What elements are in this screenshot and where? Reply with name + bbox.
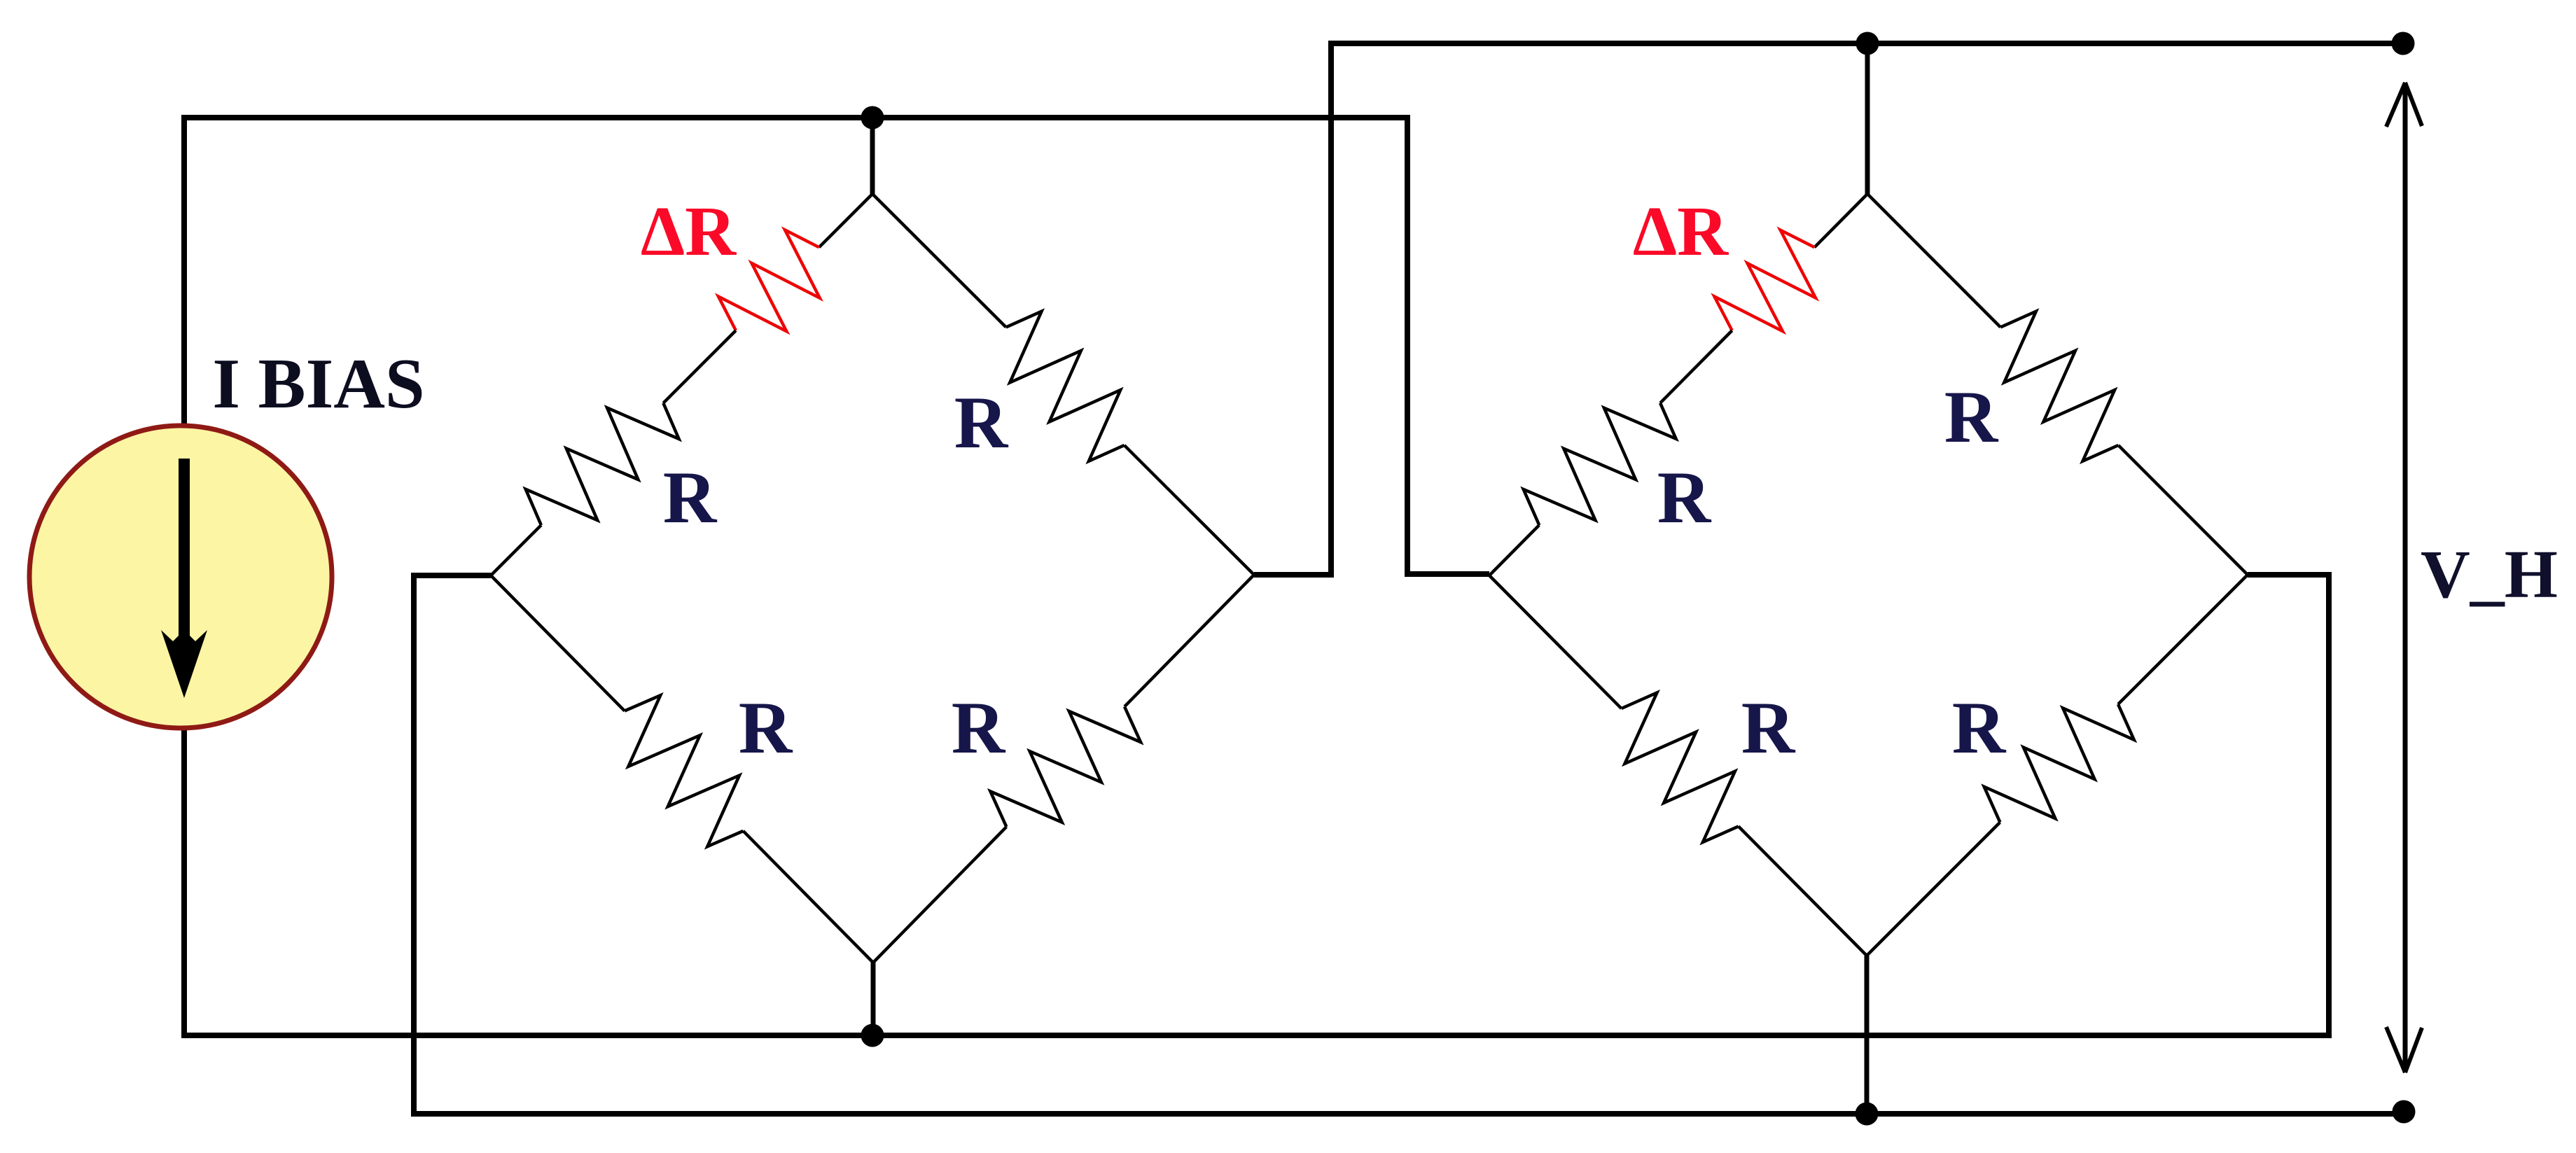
wire bridge1 bottom-right arm lead a (873, 827, 1006, 963)
svg-text:R: R (1944, 376, 1999, 458)
wire bridge2 bottom-left arm lead a (1489, 575, 1622, 708)
svg-text:R: R (1741, 687, 1796, 769)
wire bridge2 bottom-right arm lead a (1867, 823, 2000, 956)
wire bridge2 top-left arm lead a (1814, 194, 1867, 247)
wire stub from bridge1 left vertex (411, 573, 491, 578)
svg-text:R: R (1657, 456, 1712, 538)
node D junction bridge2 bottom (1856, 1103, 1879, 1126)
resistor R (bridge1 bottom-right arm) (990, 706, 1141, 827)
wire bridge2 top-right arm lead b (2118, 445, 2248, 575)
wire bridge1 bottom-right arm lead b (1125, 575, 1254, 706)
wire bridge1 top-left arm lead b (491, 525, 541, 575)
svg-text:R: R (952, 687, 1006, 769)
wire bridge2 top stub (1865, 43, 1870, 194)
wire bridge2 top-left arm lead b (1489, 525, 1539, 575)
wire bridge1 top-right arm lead a (872, 194, 1006, 327)
wire bridge1 bottom stub (871, 963, 876, 1035)
wire bottom rail 1 (node C) (181, 1033, 2332, 1038)
wire bridge2 top-right arm lead a (1867, 194, 2000, 327)
V_H measurement arrow line (2403, 85, 2408, 1072)
current source I BIAS circle (29, 426, 332, 728)
wire stub from bridge1 right vertex (1254, 572, 1334, 578)
node C junction bridge1 bottom (861, 1024, 884, 1047)
node D junction V_H bottom (2393, 1100, 2416, 1124)
svg-text:R: R (663, 456, 718, 538)
wire current-source top lead (181, 115, 187, 426)
V_H arrow head bottom (2386, 1027, 2422, 1072)
resistor dR (bridge2 top-left arm) (1715, 230, 1816, 332)
wire bridge2 bottom-right arm lead b (2118, 575, 2248, 704)
node A junction bridge1 top (861, 106, 884, 130)
resistor R (bridge2 bottom-right arm) (1984, 704, 2134, 823)
resistor R (bridge2 top-right arm) (2000, 312, 2118, 461)
svg-text:R: R (1952, 687, 2007, 769)
resistor R (bridge1 bottom-left arm) (625, 695, 743, 846)
resistor R (bridge2 bottom-left arm) (1622, 692, 1739, 842)
V_H arrow head top (2386, 83, 2422, 127)
wire bridge1 bottom-left arm lead a (491, 575, 625, 711)
svg-text:V_H: V_H (2421, 537, 2558, 613)
current source arrow (179, 459, 190, 644)
wire bridge2 bottom-left arm lead b (1739, 826, 1867, 956)
node B junction V_H top (2392, 32, 2415, 55)
wire up from bottom rail 1 (2326, 572, 2332, 1035)
resistor R (bridge1 top-left arm) (526, 403, 679, 525)
wire bridge2 bottom stub (1865, 956, 1870, 1114)
wire stub to bridge2 right vertex (2248, 572, 2332, 578)
wire bottom rail 2 (node D) (411, 1111, 2404, 1117)
wire down from top-rail-left to bridge2 left (1405, 118, 1410, 577)
resistor R (bridge2 top-left arm) (1524, 403, 1676, 525)
wire top rail right (node B) (1328, 41, 2403, 46)
wire bridge2 top-left arm middle (1660, 330, 1732, 403)
wire current-source bottom lead (181, 728, 187, 1038)
wire down from bridge1 left (411, 573, 417, 1117)
wire bridge1 top-left arm middle (663, 330, 736, 403)
wire bridge1 top-right arm lead b (1125, 445, 1254, 575)
resistor R (bridge1 top-right arm) (1006, 312, 1125, 461)
node B junction bridge2 top (1856, 32, 1879, 55)
svg-text:R: R (954, 382, 1009, 463)
wire bridge1 top-left arm lead a (819, 194, 872, 247)
wire bridge1 bottom-left arm lead b (743, 831, 873, 963)
wire stub to bridge2 left vertex (1407, 571, 1489, 577)
resistor dR (bridge1 top-left arm) (718, 230, 820, 331)
wire up to top rail right (1328, 43, 1334, 578)
svg-text:ΔR: ΔR (641, 192, 737, 270)
wire bridge1 top stub (870, 118, 875, 194)
svg-text:ΔR: ΔR (1633, 192, 1729, 270)
wire top rail left (node A) (181, 115, 1410, 120)
svg-text:R: R (739, 687, 793, 769)
svg-text:I BIAS: I BIAS (212, 344, 424, 424)
